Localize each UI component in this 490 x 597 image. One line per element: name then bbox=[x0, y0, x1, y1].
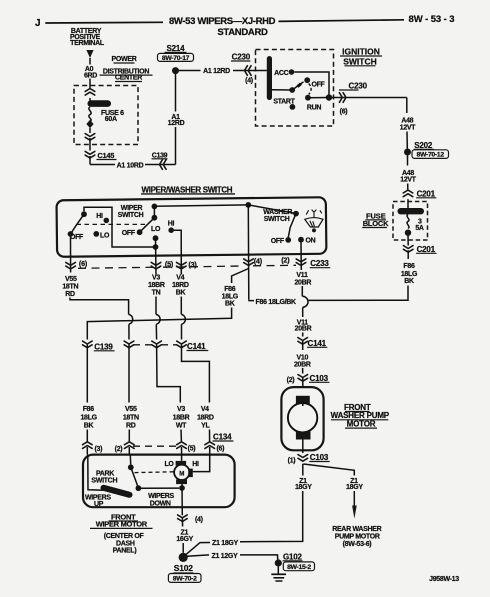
svg-text:18GY: 18GY bbox=[346, 484, 363, 491]
svg-text:V10: V10 bbox=[297, 355, 309, 362]
svg-text:18LG: 18LG bbox=[401, 271, 418, 278]
svg-text:WIPER MOTOR: WIPER MOTOR bbox=[96, 520, 148, 529]
svg-text:8W - 53 - 3: 8W - 53 - 3 bbox=[409, 14, 455, 25]
svg-text:ACC: ACC bbox=[274, 70, 289, 77]
svg-text:REAR WASHER: REAR WASHER bbox=[332, 526, 381, 533]
svg-text:A48: A48 bbox=[401, 118, 413, 125]
svg-text:PANEL): PANEL) bbox=[113, 548, 137, 555]
svg-text:DOWN: DOWN bbox=[150, 501, 171, 508]
svg-text:S102: S102 bbox=[174, 563, 194, 573]
svg-text:V3: V3 bbox=[152, 275, 160, 282]
svg-text:TN: TN bbox=[152, 289, 161, 296]
svg-text:(3): (3) bbox=[188, 260, 197, 269]
svg-text:C103: C103 bbox=[310, 374, 329, 383]
svg-text:C233: C233 bbox=[310, 259, 329, 268]
svg-text:BK: BK bbox=[225, 301, 235, 308]
svg-text:S214: S214 bbox=[167, 44, 186, 53]
svg-text:18LG: 18LG bbox=[80, 414, 97, 421]
svg-text:Z1 12GY: Z1 12GY bbox=[212, 553, 239, 560]
svg-text:12VT: 12VT bbox=[400, 125, 417, 132]
svg-text:(4): (4) bbox=[245, 78, 253, 85]
svg-text:V3: V3 bbox=[177, 406, 185, 413]
svg-text:F86: F86 bbox=[403, 263, 415, 270]
svg-text:20BR: 20BR bbox=[294, 279, 311, 286]
svg-text:60A: 60A bbox=[105, 116, 117, 123]
svg-text:J958W-13: J958W-13 bbox=[429, 576, 459, 583]
svg-text:20BR: 20BR bbox=[295, 326, 312, 333]
svg-text:F86: F86 bbox=[224, 286, 236, 293]
svg-text:HI: HI bbox=[192, 461, 199, 468]
svg-text:SWITCH: SWITCH bbox=[118, 212, 144, 219]
svg-text:C141: C141 bbox=[187, 342, 206, 351]
svg-text:RD: RD bbox=[65, 291, 75, 298]
svg-text:5A: 5A bbox=[415, 225, 424, 232]
svg-text:C201: C201 bbox=[417, 245, 436, 254]
svg-text:8W-70-12: 8W-70-12 bbox=[417, 152, 445, 159]
svg-text:(4): (4) bbox=[195, 516, 203, 523]
svg-text:C134: C134 bbox=[213, 433, 232, 442]
svg-text:TERMINAL: TERMINAL bbox=[70, 40, 105, 47]
svg-text:HI: HI bbox=[168, 220, 175, 227]
svg-text:CENTER: CENTER bbox=[115, 75, 142, 82]
svg-text:IGNITION: IGNITION bbox=[342, 47, 380, 57]
svg-text:F86 18LG/BK: F86 18LG/BK bbox=[256, 299, 297, 306]
svg-text:(4): (4) bbox=[254, 256, 263, 265]
svg-text:ON: ON bbox=[306, 237, 316, 244]
svg-text:18RD: 18RD bbox=[172, 282, 189, 289]
svg-text:RD: RD bbox=[126, 422, 136, 429]
svg-text:WIPERS: WIPERS bbox=[148, 493, 174, 500]
svg-text:WT: WT bbox=[176, 422, 187, 429]
svg-text:Z1 18GY: Z1 18GY bbox=[212, 540, 239, 547]
svg-text:C141: C141 bbox=[308, 339, 327, 348]
svg-text:LO: LO bbox=[164, 461, 174, 468]
svg-text:12RD: 12RD bbox=[168, 120, 185, 127]
svg-text:8W-53 WIPERS—XJ-RHD: 8W-53 WIPERS—XJ-RHD bbox=[169, 16, 276, 27]
svg-text:6RD: 6RD bbox=[84, 73, 97, 80]
svg-text:SWITCH: SWITCH bbox=[264, 216, 290, 223]
svg-text:C230: C230 bbox=[232, 53, 251, 62]
svg-text:8W-70-17: 8W-70-17 bbox=[162, 55, 190, 62]
svg-text:OFF: OFF bbox=[311, 82, 325, 89]
svg-text:(2): (2) bbox=[287, 377, 295, 384]
svg-text:MOTOR: MOTOR bbox=[347, 420, 376, 429]
svg-text:OFF: OFF bbox=[122, 230, 136, 237]
svg-text:(2): (2) bbox=[281, 256, 290, 265]
svg-text:J: J bbox=[35, 18, 41, 29]
svg-text:18TN: 18TN bbox=[62, 284, 78, 291]
svg-text:DASH: DASH bbox=[116, 540, 135, 547]
svg-text:PUMP MOTOR: PUMP MOTOR bbox=[335, 533, 380, 540]
svg-text:12VT: 12VT bbox=[400, 177, 417, 184]
svg-text:WIPER: WIPER bbox=[121, 205, 143, 212]
svg-text:BK: BK bbox=[84, 422, 94, 429]
svg-text:F86: F86 bbox=[83, 406, 95, 413]
svg-text:BK: BK bbox=[404, 278, 414, 285]
svg-text:BLOCK: BLOCK bbox=[363, 219, 389, 228]
svg-text:(6): (6) bbox=[216, 446, 224, 453]
svg-text:M: M bbox=[179, 470, 184, 477]
svg-text:C201: C201 bbox=[417, 189, 436, 198]
svg-text:OFF: OFF bbox=[271, 238, 285, 245]
svg-text:(5): (5) bbox=[165, 259, 174, 268]
svg-text:RUN: RUN bbox=[307, 105, 322, 112]
svg-text:C230: C230 bbox=[349, 82, 368, 91]
svg-text:WASHER: WASHER bbox=[263, 209, 292, 216]
svg-text:(6): (6) bbox=[340, 109, 348, 116]
svg-text:YL: YL bbox=[201, 422, 210, 429]
svg-text:SWITCH: SWITCH bbox=[91, 478, 117, 485]
svg-text:PARK: PARK bbox=[96, 471, 114, 478]
svg-text:(1): (1) bbox=[288, 458, 296, 465]
svg-text:POWER: POWER bbox=[112, 56, 137, 63]
svg-text:18BR: 18BR bbox=[148, 282, 165, 289]
svg-text:UP: UP bbox=[94, 501, 104, 508]
svg-text:LO: LO bbox=[151, 226, 161, 233]
svg-text:(5): (5) bbox=[188, 446, 196, 453]
svg-text:V4: V4 bbox=[201, 406, 209, 413]
svg-text:C139: C139 bbox=[94, 342, 113, 351]
svg-text:(2): (2) bbox=[115, 446, 123, 453]
svg-text:C103: C103 bbox=[310, 453, 329, 462]
svg-text:16GY: 16GY bbox=[176, 536, 193, 543]
svg-text:18GY: 18GY bbox=[295, 484, 312, 491]
svg-text:HI: HI bbox=[96, 213, 103, 220]
svg-text:SWITCH: SWITCH bbox=[343, 56, 377, 66]
svg-text:(6): (6) bbox=[79, 259, 88, 268]
svg-text:V11: V11 bbox=[296, 272, 308, 279]
svg-text:18RD: 18RD bbox=[197, 414, 214, 421]
svg-text:8W-70-2: 8W-70-2 bbox=[173, 576, 197, 583]
svg-text:G102: G102 bbox=[283, 552, 303, 561]
svg-text:V55: V55 bbox=[65, 276, 77, 283]
svg-text:(CENTER OF: (CENTER OF bbox=[104, 533, 145, 540]
svg-text:20BR: 20BR bbox=[294, 362, 311, 369]
svg-text:STANDARD: STANDARD bbox=[217, 27, 268, 38]
svg-text:18BR: 18BR bbox=[173, 414, 190, 421]
svg-text:LO: LO bbox=[100, 233, 110, 240]
svg-text:8W-15-2: 8W-15-2 bbox=[287, 564, 311, 571]
svg-text:(8W-53-6): (8W-53-6) bbox=[343, 541, 372, 548]
svg-text:V4: V4 bbox=[176, 275, 184, 282]
svg-text:(3): (3) bbox=[94, 446, 102, 453]
svg-text:C145: C145 bbox=[97, 151, 114, 160]
svg-text:BK: BK bbox=[176, 289, 186, 296]
svg-text:S202: S202 bbox=[414, 141, 433, 150]
svg-text:WIPER/WASHER SWITCH: WIPER/WASHER SWITCH bbox=[142, 185, 233, 194]
svg-text:A1 12RD: A1 12RD bbox=[203, 68, 230, 75]
svg-text:A1 10RD: A1 10RD bbox=[117, 163, 144, 170]
svg-text:18TN: 18TN bbox=[123, 414, 139, 421]
svg-text:V55: V55 bbox=[125, 406, 137, 413]
